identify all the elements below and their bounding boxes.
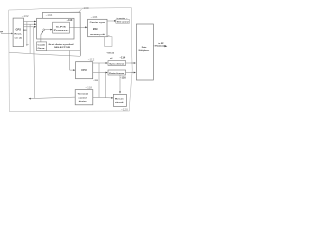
svg-text:recovery ckt: recovery ckt: [90, 33, 105, 36]
svg-text:Multiplexer: Multiplexer: [139, 49, 150, 52]
bus wire 2: [24, 23, 34, 25]
B3 output label rows: [117, 17, 130, 24]
outer dashed enclosure 100: [9, 8, 133, 112]
svg-text:circuit: circuit: [115, 101, 124, 104]
bottom wire right segment: [93, 96, 113, 99]
reset box: [113, 94, 126, 106]
svg-text:Recei-: Recei-: [15, 34, 23, 36]
wire inner box to B3: [69, 26, 86, 28]
bus arrow 2: [34, 23, 36, 25]
arrow into B5 lower: [134, 72, 136, 74]
arrow into reset box left: [111, 97, 113, 99]
arrow into inner box: [50, 29, 52, 31]
svg-text:~104: ~104: [46, 13, 53, 17]
vertical tap V3 long: [34, 27, 35, 99]
svg-text:~102: ~102: [22, 14, 29, 18]
svg-text:~112: ~112: [88, 58, 95, 62]
svg-text:Data: Data: [142, 46, 147, 49]
leader for 100: [79, 9, 82, 12]
B3 output wire: [107, 20, 116, 22]
feedback wire loop: [42, 12, 80, 56]
B1 text: [15, 29, 23, 39]
block B4 CPU: [76, 62, 93, 79]
svg-text:Code: Code: [38, 45, 47, 47]
bottom-left box terminal: [75, 90, 93, 105]
svg-text:SELECTOR: SELECTOR: [54, 47, 71, 49]
vertical wire V5: [98, 63, 100, 97]
wire down from selector: [70, 51, 75, 71]
svg-text:G.P.S: G.P.S: [56, 27, 67, 29]
box B: [108, 70, 126, 75]
box A sync: [108, 61, 126, 66]
arrow into box A: [106, 62, 108, 64]
svg-text:MAC: MAC: [93, 28, 98, 31]
switch blade arrowhead: [42, 31, 44, 32]
small box below B3: [105, 37, 112, 47]
bus wire 3: [24, 26, 34, 28]
V1 end arrowhead: [26, 44, 28, 46]
svg-text:~118: ~118: [85, 85, 92, 89]
svg-text:~110: ~110: [67, 18, 73, 22]
junction dot on enclosure edge upper: [131, 62, 132, 63]
svg-text:CPU: CPU: [81, 69, 87, 72]
svg-text:control: control: [79, 96, 88, 99]
svg-text:~114: ~114: [120, 56, 126, 60]
output label rows: [155, 42, 166, 48]
block B2 selector unit: [37, 18, 74, 39]
vertical wire into reset box: [119, 75, 121, 93]
wire B4 to box A: [93, 62, 107, 64]
inner box text: [54, 27, 70, 33]
reset box text: [115, 98, 124, 104]
terminal box text: [78, 94, 89, 104]
B5 output wire: [153, 45, 165, 47]
long wire sloped: [9, 52, 80, 56]
junction dot on enclosure edge lower: [132, 72, 133, 73]
bus arrow 3: [34, 26, 36, 28]
svg-text:Front end: Front end: [155, 45, 166, 48]
svg-text:ver ckt: ver ckt: [15, 36, 23, 39]
tall block B5 multiplexer: [136, 24, 153, 80]
svg-text:Carrier sync: Carrier sync: [90, 22, 106, 24]
B3 output minibox: [116, 20, 130, 24]
inner box DSP: [53, 22, 70, 33]
svg-text:Terminal: Terminal: [78, 94, 89, 96]
svg-text:~109 clk: ~109 clk: [106, 53, 115, 55]
block B1 receiver: [13, 18, 23, 46]
wire box B to B5: [126, 72, 136, 74]
vertical wire V6: [104, 73, 106, 98]
arrow into B5 upper: [134, 62, 136, 64]
svg-text:to carrier: to carrier: [117, 17, 126, 20]
vertical tap V2: [29, 24, 31, 53]
input arrowhead: [11, 33, 13, 35]
svg-text:~100: ~100: [82, 6, 89, 10]
B3 output arrow: [114, 20, 116, 22]
switch blade: [41, 31, 43, 35]
svg-text:Data frame: Data frame: [109, 72, 125, 75]
svg-text:device: device: [79, 101, 88, 103]
input wire: [1, 32, 12, 34]
B5 text: [139, 46, 150, 52]
B5 output arrow: [165, 45, 168, 47]
vertical tap V1: [26, 22, 28, 46]
svg-text:Sync detect: Sync detect: [109, 63, 124, 66]
switch contact circle: [43, 29, 45, 31]
svg-text:Genr.: Genr.: [38, 47, 46, 50]
small box below B3 text: [107, 35, 109, 36]
switch pole wire: [40, 35, 42, 42]
arrow into B4: [73, 69, 75, 71]
svg-text:~106: ~106: [91, 15, 98, 19]
bus arrow 1: [34, 21, 36, 23]
B3 text: [90, 22, 106, 36]
wire switch to inner box: [44, 29, 52, 31]
small box code gen: [37, 42, 47, 51]
arrow into B3: [85, 26, 87, 28]
bottom wire left arrowhead: [29, 98, 31, 100]
svg-text:Reset: Reset: [115, 98, 124, 101]
wire from caption area to feedback vertical: [47, 49, 80, 51]
svg-text:~120: ~120: [121, 107, 128, 111]
bus wire 1: [24, 21, 34, 23]
svg-text:NCO control: NCO control: [117, 21, 129, 24]
svg-text:~116: ~116: [120, 75, 126, 79]
wire B4 to box B: [93, 72, 107, 74]
small box text: [38, 45, 47, 50]
wire box A to B5: [126, 62, 136, 64]
arrow into box B: [106, 72, 108, 74]
svg-text:first data symbol: first data symbol: [49, 43, 75, 46]
svg-text:GPS: GPS: [16, 29, 22, 31]
svg-text:Process.: Process.: [54, 30, 70, 32]
block B3 MAC: [88, 19, 107, 36]
bottom wire left segment: [30, 97, 75, 98]
arrow down into reset box: [119, 91, 121, 93]
